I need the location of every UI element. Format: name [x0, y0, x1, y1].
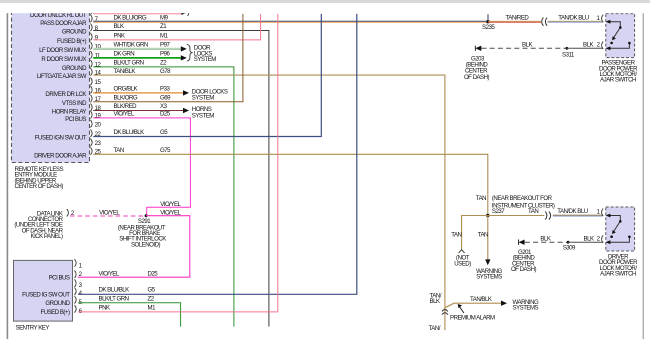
- svg-text:DK GRN: DK GRN: [114, 51, 135, 58]
- crop mask above drawing area: [0, 3, 650, 13]
- svg-text:DK BLU/BLK: DK BLU/BLK: [99, 287, 130, 294]
- svg-text:VIO/YEL: VIO/YEL: [160, 201, 181, 208]
- inline connector (driver): [545, 211, 550, 219]
- svg-text:KICK PANEL): KICK PANEL): [31, 233, 63, 240]
- svg-text:SENTRY KEY: SENTRY KEY: [16, 324, 50, 331]
- svg-text:WHT/DK GRN: WHT/DK GRN: [114, 42, 148, 49]
- wire VIO/YEL D25 pin 19: [93, 111, 190, 216]
- svg-text:TAN/BLK: TAN/BLK: [114, 68, 136, 75]
- premium alarm junction: [429, 292, 539, 332]
- svg-text:GROUND: GROUND: [45, 300, 70, 307]
- svg-text:SYSTEM: SYSTEM: [192, 112, 214, 119]
- svg-text:TAN/RED: TAN/RED: [506, 14, 530, 21]
- svg-text:R DOOR SW MUX: R DOOR SW MUX: [41, 56, 86, 63]
- RKE pin arcs: [91, 11, 93, 155]
- svg-text:BLK: BLK: [114, 23, 124, 30]
- wire WHT/DK GRN P97 pin 10: [93, 42, 187, 52]
- driver door power lock motor/ajar switch: [602, 207, 635, 251]
- svg-text:X3: X3: [160, 103, 168, 110]
- svg-text:TAN: TAN: [528, 208, 538, 215]
- svg-text:TAN/BLK: TAN/BLK: [470, 296, 492, 303]
- wire TAN/BLK G78 pin 14: [93, 68, 501, 308]
- svg-text:S311: S311: [562, 51, 575, 58]
- svg-text:S237: S237: [492, 208, 505, 215]
- svg-text:TAN/: TAN/: [429, 325, 441, 332]
- wire BLK Z1 pin 8: [93, 23, 269, 326]
- svg-text:VTSS IND: VTSS IND: [62, 100, 87, 107]
- wire PNK M1 pin 9: [93, 14, 260, 40]
- svg-text:BLK: BLK: [522, 41, 532, 48]
- page top grey band: [0, 0, 650, 3]
- svg-text:CENTER OF DASH): CENTER OF DASH): [15, 183, 64, 190]
- wire BLK/LT GRN Z2 sentry pin 5: [78, 295, 181, 326]
- svg-text:VIO/YEL: VIO/YEL: [99, 210, 120, 217]
- svg-text:AJAR SWITCH: AJAR SWITCH: [600, 77, 636, 84]
- wire TAN stub to not used: [451, 216, 488, 268]
- svg-text:D25: D25: [148, 270, 159, 277]
- wire BLK/LT GRN Z2 pin 12: [93, 60, 234, 327]
- svg-text:BLK/LT GRN: BLK/LT GRN: [114, 60, 144, 67]
- svg-text:G69: G69: [160, 95, 171, 102]
- svg-text:VIO/YEL: VIO/YEL: [114, 111, 135, 118]
- wire ORG/BLK P33 pin 16: [93, 86, 228, 102]
- splice S291: [118, 214, 166, 248]
- passenger door power lock motor/ajar switch: [602, 14, 635, 58]
- svg-text:FUSED IGN SW OUT: FUSED IGN SW OUT: [35, 135, 87, 142]
- svg-text:D25: D25: [160, 111, 171, 118]
- wire DK BLU/BLK G5 pin 22: [93, 14, 321, 137]
- data link connector: [14, 210, 63, 240]
- svg-text:(NEAR BREAKOUT FOR: (NEAR BREAKOUT FOR: [492, 195, 553, 202]
- svg-text:P33: P33: [160, 86, 170, 93]
- svg-text:SYSTEM: SYSTEM: [194, 56, 216, 63]
- svg-text:TAN: TAN: [478, 232, 488, 239]
- svg-text:PNK: PNK: [114, 33, 125, 40]
- wire VIO/YEL S291 to sentry pin 2: [78, 216, 190, 278]
- RKE module caption: [15, 166, 64, 190]
- sentry key module box: [14, 260, 73, 321]
- svg-text:ORG/BLK: ORG/BLK: [114, 86, 138, 93]
- svg-text:FUSED B(+): FUSED B(+): [57, 38, 86, 45]
- remote keyless entry module (connector box): [12, 11, 90, 163]
- brace door locks system (pins 10-11): [187, 44, 216, 63]
- svg-text:BLK: BLK: [583, 41, 593, 48]
- svg-text:G5: G5: [148, 287, 156, 294]
- svg-text:BLK: BLK: [584, 235, 594, 242]
- svg-text:PREMIUM ALARM: PREMIUM ALARM: [450, 315, 495, 322]
- svg-text:PNK: PNK: [99, 305, 110, 312]
- page left border: [7, 13, 9, 339]
- svg-text:S235: S235: [482, 24, 495, 31]
- svg-text:TAN: TAN: [451, 232, 461, 239]
- svg-text:DK BLU/BLK: DK BLU/BLK: [114, 129, 145, 136]
- wire DK BLU/ORG M9 pin 7: [93, 14, 488, 22]
- RKE pin numbers: [95, 16, 102, 156]
- label TAN near breakout: [476, 195, 555, 215]
- svg-text:BLK/LT GRN: BLK/LT GRN: [99, 295, 129, 302]
- svg-text:M1: M1: [148, 305, 157, 312]
- wire TAN G75 pin 25: [93, 147, 488, 216]
- wire TAN drop to warning systems: [476, 216, 502, 281]
- inline connector (top): [542, 18, 547, 26]
- splice S309: [563, 241, 576, 252]
- svg-text:G78: G78: [160, 68, 171, 75]
- svg-text:DRIVER DR LCK: DRIVER DR LCK: [45, 91, 86, 98]
- wire TAN/DK BLU to driver pin 1: [553, 208, 603, 216]
- svg-text:OF DASH): OF DASH): [511, 266, 537, 273]
- svg-text:P96: P96: [160, 51, 170, 58]
- svg-text:G5: G5: [160, 129, 168, 136]
- wire BLK to passenger pin 2: [567, 41, 603, 48]
- svg-text:LF DOOR SW MUX: LF DOOR SW MUX: [39, 47, 86, 54]
- ground G203: [464, 46, 490, 81]
- svg-text:BLK: BLK: [540, 235, 550, 242]
- wire BLK/ORG G69 pin 17: [93, 14, 243, 102]
- svg-text:PCI BUS: PCI BUS: [49, 274, 70, 281]
- wire VIO/YEL dashed to S291: [70, 210, 146, 217]
- splice S235: [482, 14, 495, 31]
- svg-text:BLK/RED: BLK/RED: [114, 103, 138, 110]
- svg-text:BLK: BLK: [430, 298, 440, 305]
- svg-text:HORN RELAY: HORN RELAY: [52, 109, 87, 116]
- svg-text:GROUND: GROUND: [62, 65, 87, 72]
- svg-text:SOLENOID): SOLENOID): [131, 241, 160, 248]
- page right border: [643, 13, 644, 339]
- wire TAN/RED: [488, 14, 541, 22]
- svg-text:TAN: TAN: [114, 147, 124, 154]
- wire BLK dashed to S309: [525, 235, 568, 242]
- svg-text:USED): USED): [454, 260, 471, 267]
- svg-text:TAN/DK BLU: TAN/DK BLU: [557, 208, 588, 215]
- svg-text:VIO/YEL: VIO/YEL: [99, 270, 120, 277]
- data link pin 2 arc: [67, 209, 75, 217]
- svg-text:DK BLU/ORG: DK BLU/ORG: [114, 14, 147, 21]
- svg-text:DRIVER DOOR AJAR: DRIVER DOOR AJAR: [34, 152, 87, 159]
- svg-text:FUSED IG SW OUT: FUSED IG SW OUT: [22, 292, 70, 299]
- svg-text:PCI BUS: PCI BUS: [65, 116, 86, 123]
- svg-text:P97: P97: [160, 42, 170, 49]
- svg-text:LIFTGATE AJAR SW: LIFTGATE AJAR SW: [37, 73, 87, 80]
- sentry pin numbers: [79, 262, 83, 315]
- svg-text:G75: G75: [160, 147, 171, 154]
- passenger box caption: [599, 60, 638, 84]
- svg-text:PASS DOOR AJAR: PASS DOOR AJAR: [40, 20, 87, 27]
- wire PNK M1 sentry pin 6: [78, 14, 278, 312]
- svg-text:SYSTEM: SYSTEM: [192, 95, 214, 102]
- svg-text:AJAR SWITCH: AJAR SWITCH: [600, 271, 636, 278]
- svg-text:TAN: TAN: [476, 195, 486, 202]
- wire DK GRN P96 pin 11: [93, 51, 187, 61]
- wire PNK (cropped top row, pin 6): [93, 11, 189, 16]
- sentry wire VIO/YEL D25 labels: [99, 270, 159, 277]
- wire BLK to driver pin 2: [568, 235, 602, 242]
- svg-text:M9: M9: [160, 14, 169, 21]
- splice S237: [486, 214, 489, 217]
- wire DK BLU/BLK G5 sentry pin 4: [78, 14, 357, 294]
- svg-text:S309: S309: [563, 245, 576, 252]
- svg-text:BLK/ORG: BLK/ORG: [114, 95, 138, 102]
- driver box caption: [599, 253, 638, 277]
- wire TAN/DK BLU (passenger): [548, 14, 603, 22]
- ground G201: [511, 240, 537, 274]
- wire BLK dashed to S311: [482, 41, 567, 48]
- wire TAN to driver connector: [488, 208, 545, 215]
- svg-text:GROUND: GROUND: [62, 29, 87, 36]
- svg-text:OF DASH): OF DASH): [464, 74, 490, 81]
- svg-text:SYSTEMS: SYSTEMS: [513, 305, 539, 312]
- svg-text:SYSTEMS: SYSTEMS: [476, 274, 502, 281]
- svg-text:FUSED B(+): FUSED B(+): [40, 309, 69, 316]
- sentry pin arcs: [75, 259, 77, 313]
- splice S311: [562, 47, 575, 58]
- svg-text:TAN/DK BLU: TAN/DK BLU: [558, 14, 589, 21]
- svg-text:M1: M1: [160, 33, 169, 40]
- wire BLK/RED X3 pin 18: [93, 103, 214, 119]
